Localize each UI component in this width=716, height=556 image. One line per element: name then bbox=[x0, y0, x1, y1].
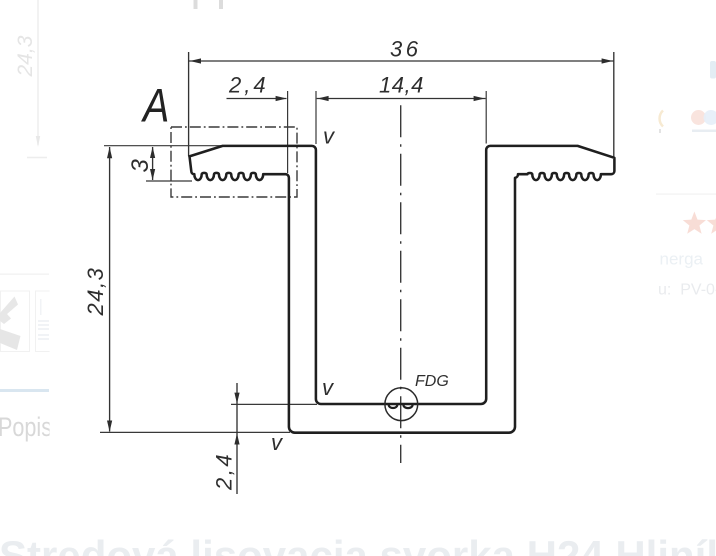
mastercard caption bbox=[692, 130, 716, 133]
dimension line 14,4 bbox=[317, 98, 486, 100]
dimension line 2,4 top bbox=[227, 98, 287, 100]
dimension line 3 bbox=[152, 147, 154, 180]
arrow 3 up bbox=[150, 147, 155, 158]
arrow 2,4 top bbox=[276, 96, 287, 101]
extension line wall outer bbox=[287, 91, 289, 173]
thumbnail box 1 bbox=[1, 291, 30, 352]
extension line 36 left bbox=[188, 52, 190, 156]
profile outline bbox=[189, 146, 614, 433]
svg-text:u: PV-0-: u: PV-0- bbox=[658, 282, 716, 299]
grip teeth in circle bbox=[389, 405, 413, 408]
left blue tab bar bbox=[0, 389, 49, 392]
extension line 36 right bbox=[613, 52, 615, 158]
svg-text:FDG: FDG bbox=[415, 373, 449, 390]
svg-text:2,4: 2,4 bbox=[228, 73, 269, 98]
watermark thumbnail dimension line 24,3 (left edge) bbox=[27, 0, 47, 158]
dimension line 36 bbox=[189, 60, 614, 62]
watermark arrow bbox=[36, 136, 40, 147]
extension line inner bottom bbox=[231, 403, 317, 405]
right divider bbox=[655, 194, 716, 195]
svg-text:14,4: 14,4 bbox=[379, 73, 424, 98]
top faint ticks bbox=[194, 0, 198, 9]
arrow 14,4 right bbox=[474, 96, 485, 101]
main image white canvas bbox=[50, 9, 656, 515]
centerline bbox=[400, 105, 402, 463]
thumbnail box 2 bbox=[36, 291, 64, 352]
svg-text:24,3: 24,3 bbox=[14, 35, 37, 77]
arrow 2,4 bottom lower bbox=[234, 433, 239, 444]
arrow 3 down bbox=[150, 169, 155, 180]
left divider bbox=[0, 274, 49, 275]
mastercard circles bbox=[691, 110, 706, 125]
extension line 3 bottom bbox=[146, 180, 192, 182]
rating star 2 (clipped) bbox=[707, 212, 716, 234]
detail box A bbox=[171, 127, 297, 197]
svg-text:Stredová lisovacia svorka H24: Stredová lisovacia svorka H24 Hliník bbox=[0, 532, 716, 556]
svg-text:nerga: nerga bbox=[660, 250, 704, 269]
svg-text:36: 36 bbox=[390, 37, 421, 62]
arrow 24,3 down bbox=[107, 421, 112, 432]
FDG circle bbox=[385, 388, 418, 421]
arrow 36 left bbox=[190, 58, 201, 63]
extension line wall inner bbox=[315, 91, 317, 144]
dimension line 2,4 bottom bbox=[236, 383, 238, 494]
thumbnail box 2 faint content rows bbox=[38, 299, 49, 340]
extension line 24,3 bottom bbox=[100, 431, 290, 433]
right top blue rect bbox=[710, 61, 716, 79]
svg-text:24,3: 24,3 bbox=[83, 267, 108, 317]
svg-text:Popis: Popis bbox=[0, 413, 52, 443]
rating star 1 bbox=[683, 212, 706, 234]
arrow 36 right bbox=[602, 58, 613, 63]
extension line channel right bbox=[485, 91, 487, 144]
svg-text:A: A bbox=[140, 80, 169, 132]
dimension line 24,3 bbox=[109, 147, 111, 432]
arrow 24,3 up bbox=[107, 147, 112, 158]
arrow 2,4 bottom upper bbox=[234, 393, 239, 404]
yellow arc logo fragment bbox=[660, 111, 663, 127]
extension line 24,3 top bbox=[104, 145, 222, 147]
thumbnail clamp logo (gray chevron) bbox=[0, 297, 18, 325]
arrow 14,4 left bbox=[317, 96, 328, 101]
svg-text:3: 3 bbox=[127, 159, 154, 173]
svg-text:2,4: 2,4 bbox=[212, 452, 237, 491]
